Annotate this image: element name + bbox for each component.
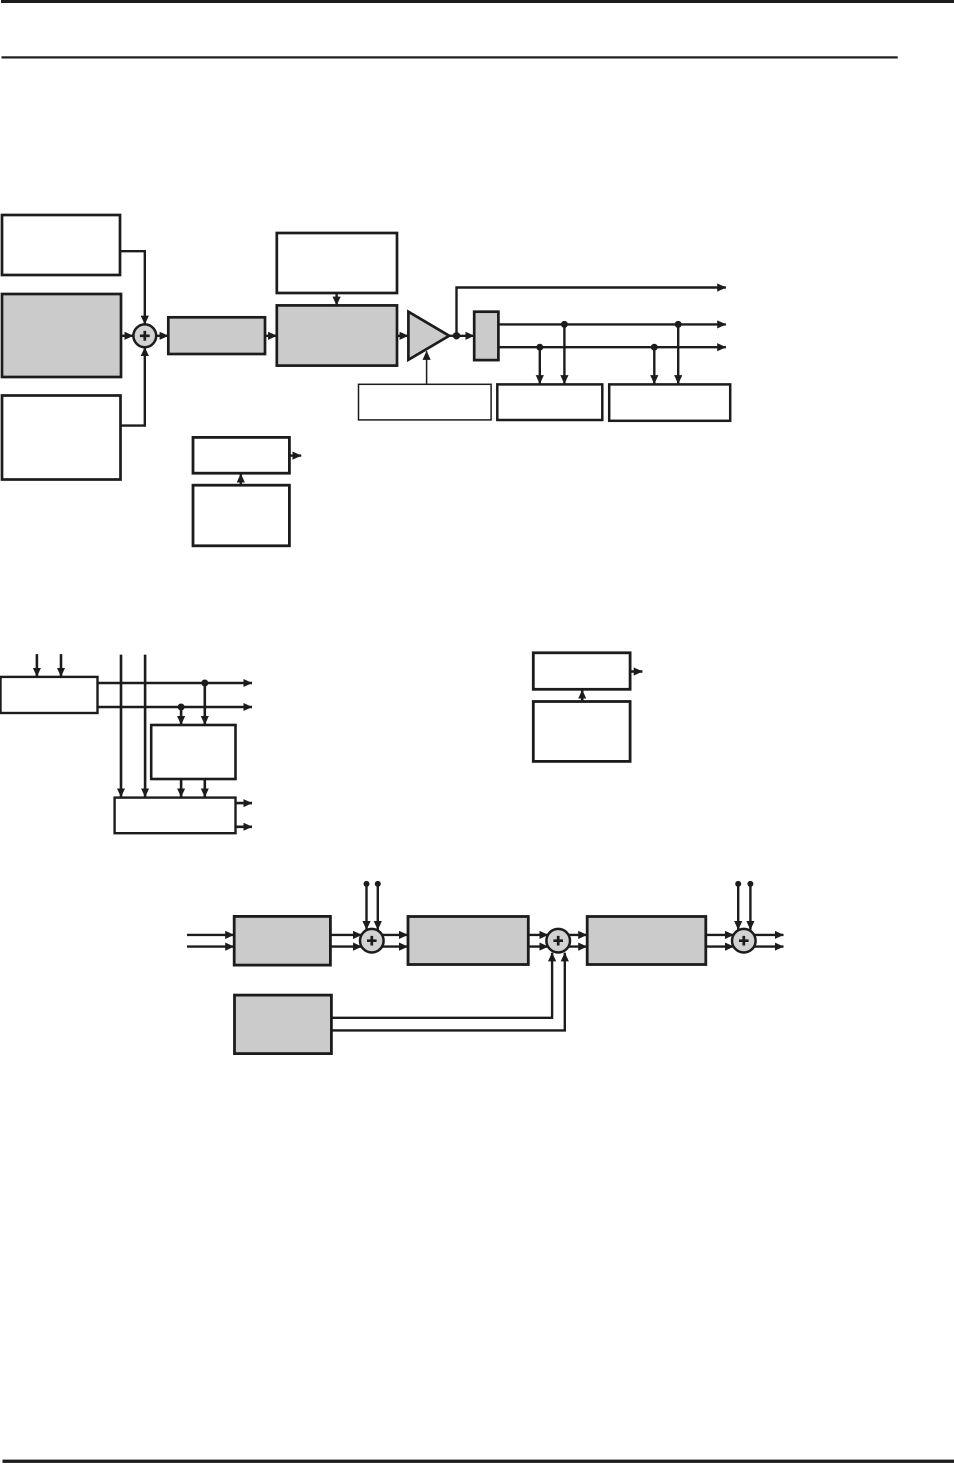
wire drop to B10 right: [677, 324, 679, 383]
junction dot bottom line 1: [536, 344, 543, 351]
footer rule: [3, 1460, 954, 1463]
amplifier triangle T1: [408, 312, 449, 360]
wire B17 up to B16: [581, 690, 584, 702]
box B13 white: [1, 677, 98, 713]
S2 to B19 line 1: [382, 934, 408, 936]
tall vertical line 2: [144, 655, 147, 797]
dot above S4 left: [735, 881, 741, 887]
wire B7 output top line: [499, 323, 726, 325]
junction dot top line 2: [675, 321, 682, 328]
vertical into S4 left: [737, 884, 739, 930]
box B20 gray: [587, 917, 706, 965]
wire B16 output: [630, 670, 642, 673]
B20 to S4 line 2: [706, 945, 734, 947]
box B15 white: [115, 798, 236, 834]
junction dot bottom line 2: [651, 344, 658, 351]
B13 output bottom line: [98, 706, 253, 709]
box B21 gray: [235, 995, 332, 1054]
junction dot at T1 output: [453, 332, 460, 339]
summing node S4: [732, 929, 756, 953]
S4 output line 2: [754, 945, 783, 947]
wire B11 output: [289, 454, 301, 456]
S2 to B19 line 2: [382, 945, 408, 947]
B18 to S2 line 1: [330, 934, 361, 936]
wire B8 up to amplifier (thin): [426, 351, 428, 384]
summing node S1: [133, 324, 156, 347]
input arrow 2 into B18: [187, 945, 234, 947]
input arrow 1 into B18: [187, 934, 234, 936]
dot above S2 right: [375, 881, 381, 887]
dot above S4 right: [747, 881, 753, 887]
box B4 gray: [168, 317, 265, 354]
box B9 white: [497, 384, 602, 420]
box B7 gray small: [474, 312, 498, 360]
box B12 white: [193, 485, 289, 546]
wire B2 to S1: [121, 335, 133, 337]
wire drop to B9 left: [539, 347, 541, 384]
box B14 white: [151, 725, 235, 779]
box B19 gray: [408, 917, 528, 965]
wire junction up and right long arrow: [457, 288, 726, 336]
box B3 white: [2, 396, 121, 480]
box B6 white: [277, 233, 397, 293]
input arrow 1 into B13: [36, 654, 39, 676]
wire B7 output bottom line: [499, 346, 726, 348]
box B2 gray: [2, 294, 121, 377]
B13 output top line: [98, 682, 253, 685]
S4 output line 1: [754, 934, 783, 936]
summing node S3: [546, 929, 570, 953]
box B10 white: [609, 384, 730, 420]
box B8 white thin: [359, 384, 492, 420]
box B16 white: [533, 653, 630, 690]
B15 output arrow 1: [236, 802, 253, 805]
feedback wire B21 upper: [331, 953, 552, 1018]
S3 to B20 line 2: [568, 945, 587, 947]
box B5 gray: [277, 305, 397, 365]
wire drop to B10 left: [653, 347, 655, 384]
junction dot on B13 top output: [201, 680, 208, 687]
junction dot on B13 bottom output: [178, 704, 185, 711]
wire drop to B9 right: [563, 324, 565, 383]
header rule second: [2, 56, 898, 58]
vertical into S4 right: [749, 884, 751, 930]
box B17 white: [533, 702, 630, 762]
box B18 gray: [234, 916, 330, 965]
feedback wire B21 lower: [331, 953, 564, 1031]
wire B6 down to B5: [335, 294, 337, 305]
B19 to S3 line 2: [528, 945, 548, 947]
tall vertical line 1: [120, 655, 123, 797]
vertical into S2 right: [377, 884, 379, 930]
vertical into S2 left: [365, 884, 367, 930]
dot above S2 left: [364, 881, 370, 887]
wire S1 to B4: [156, 335, 168, 337]
drop from top line into B14: [204, 683, 207, 725]
input arrow 2 into B13: [60, 654, 63, 676]
summing node S2: [360, 929, 384, 953]
wire B5 to amplifier T1: [397, 335, 408, 337]
S3 to B20 line 1: [568, 934, 587, 936]
wire B1 to summing node S1: [120, 251, 145, 324]
wire T1 to B7 with junction: [449, 335, 474, 337]
box B11 white: [193, 437, 289, 473]
B19 to S3 line 1: [528, 934, 548, 936]
wire B3 to summing node S1: [120, 347, 145, 425]
B20 to S4 line 1: [706, 934, 734, 936]
B14 output arrow 1: [180, 779, 183, 797]
box B1 white: [2, 215, 120, 275]
B14 output arrow 2: [204, 779, 207, 797]
drop from bottom line into B14: [180, 707, 183, 725]
junction dot top line 1: [561, 321, 568, 328]
B18 to S2 line 2: [330, 945, 361, 947]
B15 output arrow 2: [236, 825, 253, 828]
wire B12 up to B11: [240, 474, 242, 485]
header rule top: [1, 0, 954, 3]
wire B4 to B5: [265, 335, 277, 337]
